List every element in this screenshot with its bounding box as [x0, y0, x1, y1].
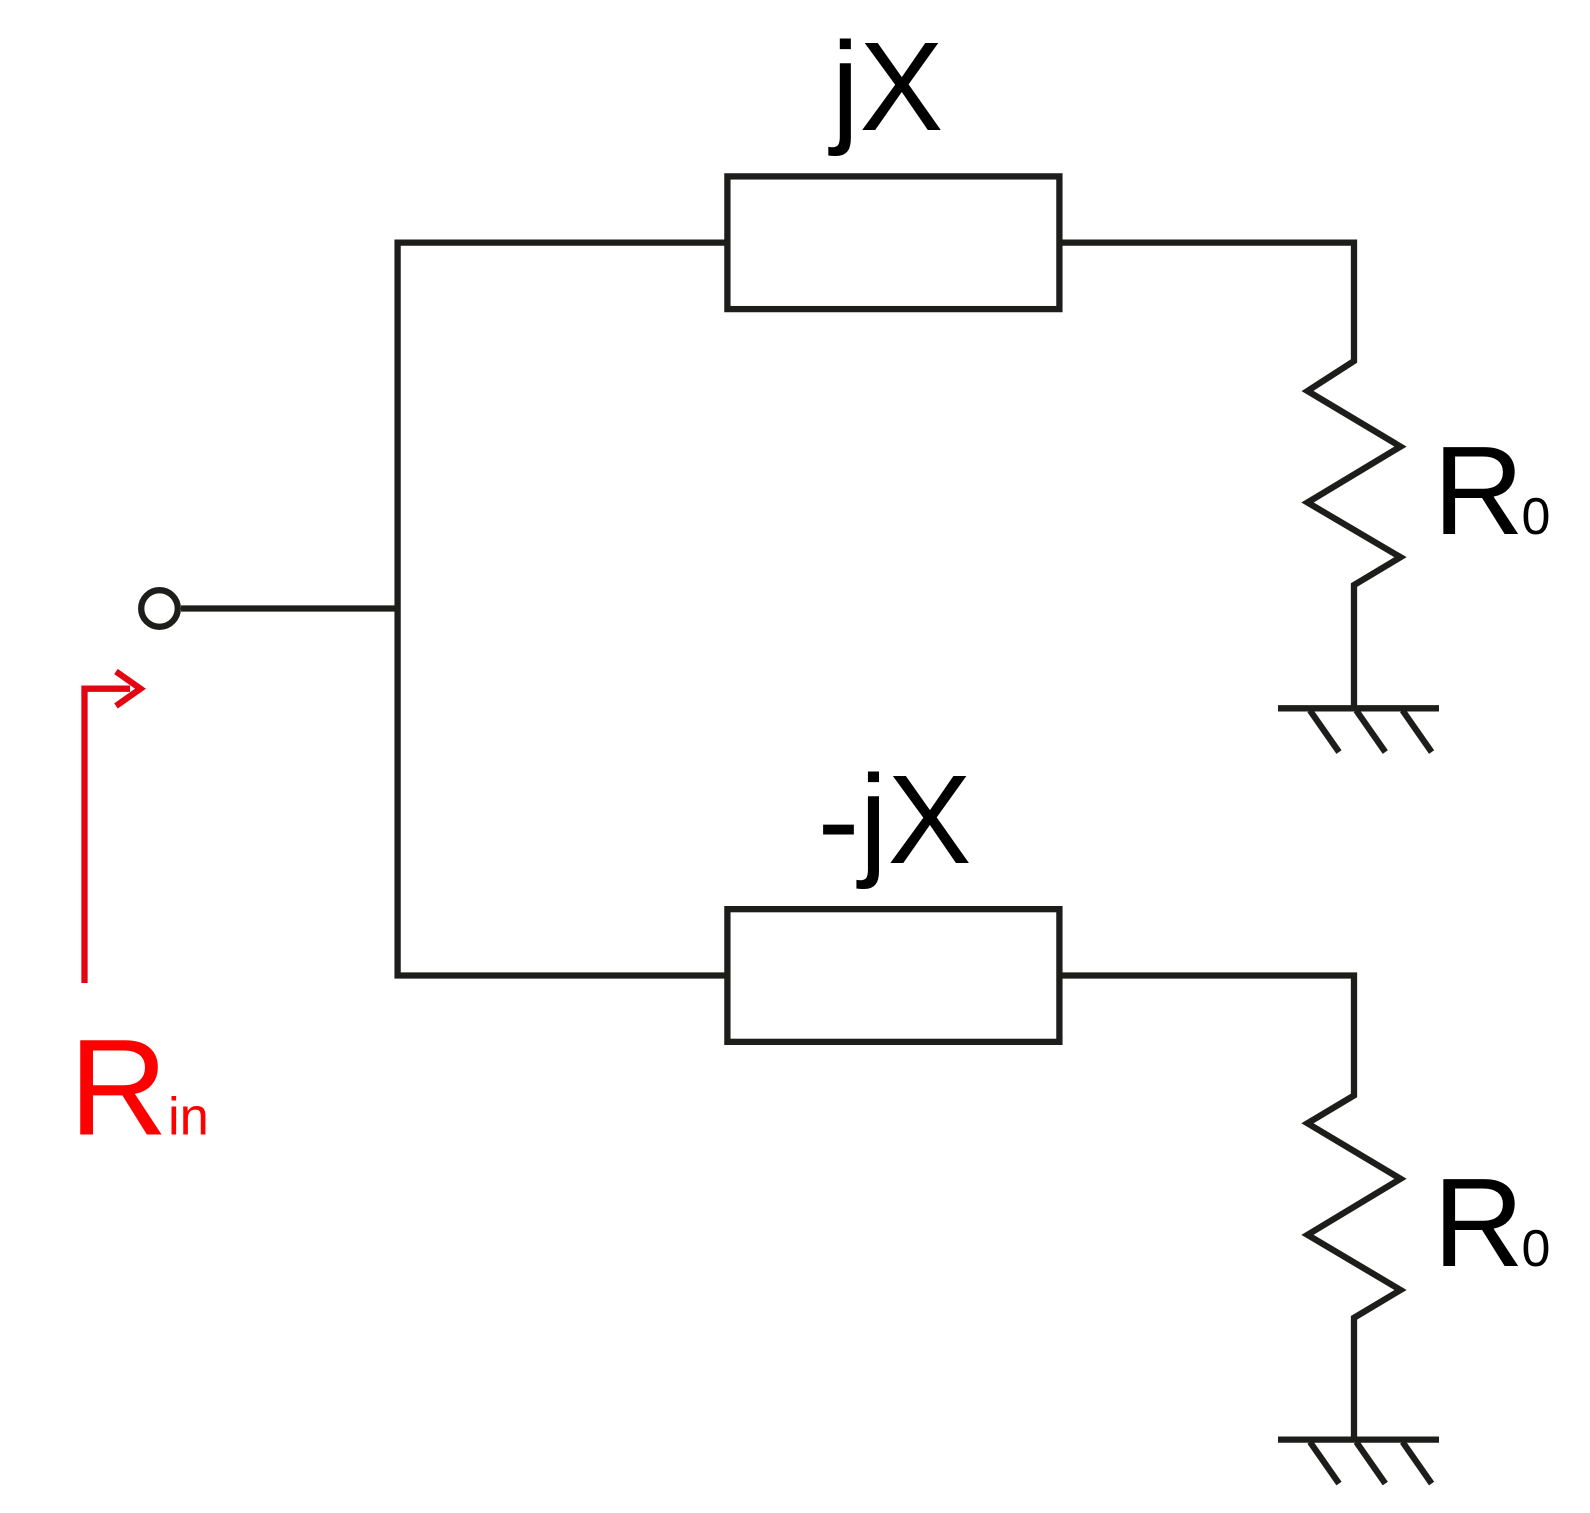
- svg-text:jX: jX: [827, 16, 943, 157]
- svg-text:-jX: -jX: [818, 749, 972, 890]
